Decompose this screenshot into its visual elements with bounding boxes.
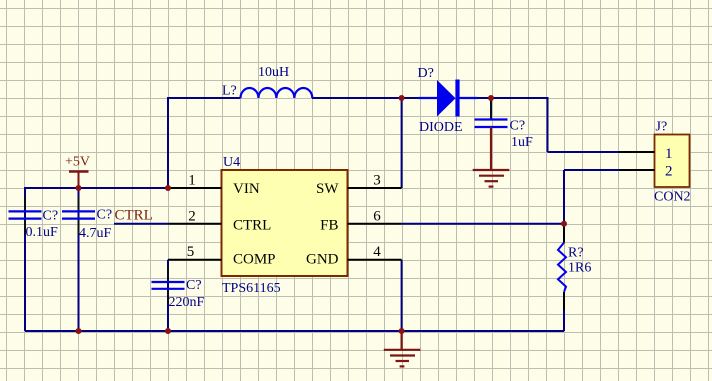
pin 1 VIN: [168, 187, 222, 189]
capacitor C 0.1uF plates: [9, 211, 42, 218]
connector pin 2 stub: [619, 169, 655, 171]
wire CTRL stub: [114, 223, 168, 225]
svg-text:10uH: 10uH: [258, 65, 289, 80]
svg-text:2: 2: [665, 164, 673, 180]
connector J? body CON2: [655, 135, 690, 188]
svg-text:C?: C?: [510, 119, 526, 134]
svg-text:CTRL: CTRL: [233, 218, 271, 234]
resistor R? zigzag: [558, 243, 566, 292]
junction node FB resistor: [561, 221, 567, 227]
pin 5 COMP: [168, 259, 222, 261]
capacitor C 1uF lead: [490, 98, 492, 119]
wire left vertical through C 0.1uF: [24, 187, 26, 331]
svg-text:1uF: 1uF: [511, 135, 533, 150]
resistor pins: [563, 224, 565, 310]
svg-text:CON2: CON2: [654, 190, 691, 205]
diode D? triangle: [437, 80, 456, 117]
wire output corner to connector pin 1: [548, 97, 620, 152]
pin 3 SW: [348, 187, 402, 189]
wire bottom ground rail: [25, 330, 564, 332]
svg-text:CTRL: CTRL: [115, 208, 153, 224]
pin 2 CTRL: [168, 223, 222, 225]
junction node C 1uF top net: [488, 95, 494, 101]
wire vertical through C 4.7uF: [78, 188, 80, 331]
junction node +5V rail: [76, 185, 82, 191]
junction node rail x168: [165, 328, 171, 334]
svg-text:2: 2: [188, 208, 196, 224]
wire GND pin corner down to rail: [401, 260, 403, 331]
svg-text:TPS61165: TPS61165: [222, 281, 281, 296]
capacitor C 220nF plates: [152, 282, 185, 289]
diode D? cathode bar: [455, 80, 459, 117]
power port +5V stem: [78, 172, 80, 188]
svg-text:220nF: 220nF: [169, 295, 205, 310]
junction node VIN row at x168: [165, 185, 171, 191]
op-amp U4 body TPS61165: [222, 170, 348, 276]
svg-text:COMP: COMP: [233, 252, 276, 268]
wire connector pin 2 to FB node vertical: [564, 170, 619, 224]
capacitor C 4.7uF plates: [62, 211, 95, 218]
svg-text:VIN: VIN: [233, 181, 260, 197]
junction node rail x78: [76, 328, 82, 334]
svg-text:4.7uF: 4.7uF: [79, 226, 112, 241]
wire FB to resistor node: [402, 223, 564, 225]
wire SW vertical up to top net: [401, 98, 403, 188]
inductor L1 coil: [241, 88, 313, 98]
svg-text:1R6: 1R6: [568, 260, 591, 275]
svg-text:+5V: +5V: [65, 155, 90, 170]
svg-text:4: 4: [373, 244, 381, 260]
ground symbol bottom center: [384, 331, 421, 366]
svg-text:0.1uF: 0.1uF: [26, 225, 59, 240]
capacitor pins black segments: [25, 196, 168, 304]
svg-text:R?: R?: [568, 245, 584, 260]
svg-text:L?: L?: [222, 84, 237, 99]
svg-text:C?: C?: [43, 209, 59, 224]
ground symbol at C 1uF: [473, 127, 510, 187]
svg-text:FB: FB: [320, 218, 338, 234]
power port +5V bar: [69, 170, 89, 173]
pin 6 FB: [348, 223, 402, 225]
connector pin 1 stub: [619, 151, 655, 153]
svg-text:6: 6: [373, 208, 381, 224]
wire vertical from top net down to VIN row: [167, 97, 169, 188]
svg-text:SW: SW: [316, 181, 339, 197]
wire +5V rail horizontal: [24, 187, 169, 189]
svg-text:1: 1: [665, 146, 673, 162]
diode D? leads: [419, 97, 478, 99]
wire resistor bottom to rail: [563, 292, 565, 331]
svg-text:GND: GND: [306, 252, 339, 268]
junction node rail ground: [399, 328, 405, 334]
svg-text:DIODE: DIODE: [419, 120, 463, 135]
junction node SW top net: [399, 95, 405, 101]
wire top net from L to D to output: [168, 97, 548, 99]
svg-text:C?: C?: [186, 278, 202, 293]
svg-text:D?: D?: [418, 66, 434, 81]
svg-text:C?: C?: [97, 208, 113, 223]
svg-text:3: 3: [373, 173, 381, 189]
svg-text:U4: U4: [223, 155, 240, 170]
wire COMP corner down through C 220nF to rail: [167, 260, 169, 331]
capacitor C 1uF plates: [475, 120, 508, 128]
pin 4 GND: [348, 259, 402, 261]
svg-text:5: 5: [187, 244, 195, 260]
svg-text:1: 1: [188, 173, 196, 189]
svg-text:J?: J?: [656, 120, 668, 135]
